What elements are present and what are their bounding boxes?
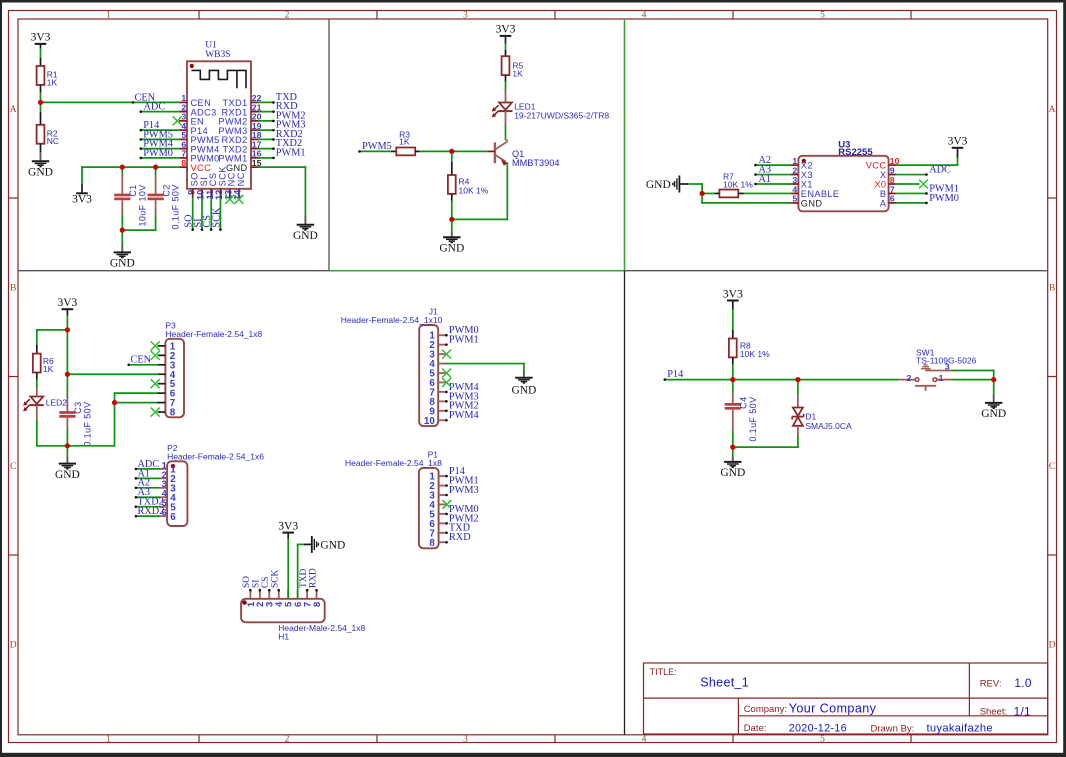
svg-text:Header-Female-2.54_1x8: Header-Female-2.54_1x8 [165,329,262,339]
svg-text:Header-Male-2.54_1x8: Header-Male-2.54_1x8 [278,623,365,633]
svg-text:3V3: 3V3 [31,32,51,44]
svg-text:RS2255: RS2255 [838,147,873,158]
svg-text:1: 1 [939,373,944,383]
svg-text:10uF 10V: 10uF 10V [137,184,147,226]
svg-text:PWM1: PWM1 [449,335,479,346]
svg-text:PWM0: PWM0 [929,193,959,204]
svg-text:3: 3 [463,735,468,745]
svg-text:2: 2 [285,735,290,745]
svg-text:A: A [880,199,887,209]
svg-text:A1: A1 [759,174,772,185]
svg-text:10K 1%: 10K 1% [459,186,489,196]
svg-text:Date:: Date: [744,723,767,734]
svg-text:4: 4 [642,735,647,745]
svg-text:4: 4 [642,11,647,21]
svg-text:GND: GND [801,199,823,209]
svg-text:6: 6 [170,512,176,523]
svg-text:1K: 1K [512,69,523,79]
svg-text:10K 1%: 10K 1% [740,349,770,359]
svg-text:U1: U1 [205,40,217,50]
svg-text:GND: GND [646,179,671,191]
svg-text:RXD: RXD [308,568,318,588]
svg-text:REV:: REV: [980,679,1002,690]
svg-text:GND: GND [110,258,135,270]
svg-text:2: 2 [285,11,290,21]
svg-text:8: 8 [429,538,435,549]
svg-text:3V3: 3V3 [723,288,743,300]
svg-text:LED2: LED2 [46,397,68,407]
svg-text:NC: NC [236,172,246,186]
svg-text:C: C [1049,462,1055,472]
svg-text:C: C [10,462,16,472]
svg-text:1: 1 [106,735,111,745]
svg-text:B: B [10,283,16,293]
svg-text:Header-Female-2.54_1x8: Header-Female-2.54_1x8 [345,458,442,468]
svg-text:5: 5 [820,11,825,21]
svg-text:PWM3: PWM3 [449,485,479,496]
svg-text:RXD: RXD [449,532,471,543]
svg-text:GND: GND [28,167,53,179]
svg-text:10K 1%: 10K 1% [723,179,753,189]
svg-text:tuyakaifazhe: tuyakaifazhe [927,723,993,735]
svg-text:3V3: 3V3 [278,520,298,532]
svg-text:B: B [1049,283,1055,293]
svg-text:3V3: 3V3 [948,136,968,148]
svg-text:SMAJ5.0CA: SMAJ5.0CA [805,421,852,431]
svg-text:TITLE:: TITLE: [650,667,677,677]
svg-text:GND: GND [226,163,248,173]
svg-text:PWM1: PWM1 [276,147,306,158]
svg-text:2020-12-16: 2020-12-16 [789,722,847,734]
svg-text:3: 3 [945,362,950,372]
svg-text:GND: GND [55,469,80,481]
svg-text:0.1uF 50V: 0.1uF 50V [82,402,92,447]
svg-text:SCK: SCK [211,207,222,228]
svg-text:8: 8 [181,158,186,168]
svg-text:0.1uF 50V: 0.1uF 50V [171,184,181,229]
svg-text:PWM0: PWM0 [143,148,173,159]
svg-text:1K: 1K [399,137,410,147]
svg-text:P14: P14 [667,369,683,380]
svg-text:19-217UWD/S365-2/TR8: 19-217UWD/S365-2/TR8 [514,110,609,120]
svg-text:10: 10 [424,416,435,427]
svg-text:Header-Female-2.54_1x6: Header-Female-2.54_1x6 [167,452,264,462]
svg-text:8: 8 [311,602,322,607]
svg-text:PWM5: PWM5 [362,141,392,152]
svg-text:PWM4: PWM4 [449,410,479,421]
svg-text:A: A [1049,105,1056,115]
svg-text:GND: GND [439,243,464,255]
svg-text:5: 5 [820,735,825,745]
svg-text:1.0: 1.0 [1014,676,1031,690]
svg-text:ADC: ADC [144,102,166,113]
svg-text:GND: GND [293,230,318,242]
svg-text:3V3: 3V3 [57,297,77,309]
svg-text:1K: 1K [47,77,58,87]
svg-text:CEN: CEN [131,355,152,366]
svg-text:Header-Female-2.54_1x10: Header-Female-2.54_1x10 [341,315,443,325]
svg-text:0.1uF 50V: 0.1uF 50V [748,397,758,442]
svg-text:GND: GND [511,384,536,396]
svg-text:GND: GND [981,408,1006,420]
svg-text:6: 6 [890,194,895,204]
svg-text:3V3: 3V3 [496,24,516,36]
svg-text:1K: 1K [43,364,54,374]
svg-text:3V3: 3V3 [72,194,92,206]
svg-text:WB3S: WB3S [205,50,230,60]
svg-text:ADC: ADC [929,164,951,175]
svg-text:Drawn By:: Drawn By: [871,724,915,735]
svg-text:VCC: VCC [191,163,212,173]
svg-text:GND: GND [720,467,745,479]
svg-text:1/1: 1/1 [1014,704,1031,718]
svg-text:GND: GND [320,540,345,552]
svg-text:D: D [1049,640,1056,650]
svg-text:Company:: Company: [744,704,787,715]
svg-text:D: D [10,640,17,650]
svg-text:Sheet:: Sheet: [980,707,1007,718]
svg-text:2: 2 [907,373,912,383]
svg-text:A: A [10,105,17,115]
svg-text:MMBT3904: MMBT3904 [512,158,560,168]
svg-text:NC: NC [47,136,59,146]
svg-text:3: 3 [463,11,468,21]
svg-text:8: 8 [170,408,176,419]
svg-text:Sheet_1: Sheet_1 [700,676,749,690]
svg-text:Your Company: Your Company [789,701,877,715]
svg-text:SCK: SCK [271,570,281,588]
svg-text:5: 5 [792,194,797,204]
svg-text:RXD2: RXD2 [138,506,165,517]
svg-text:1: 1 [106,11,111,21]
svg-text:H1: H1 [278,631,289,641]
